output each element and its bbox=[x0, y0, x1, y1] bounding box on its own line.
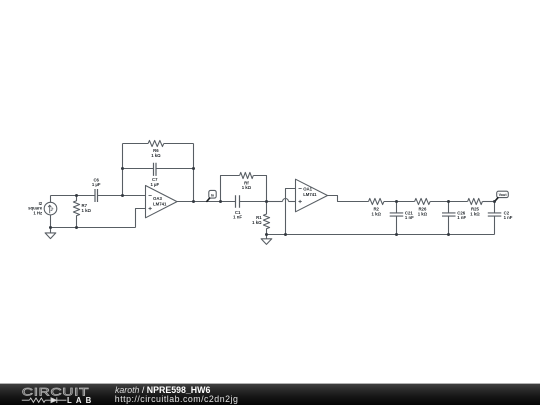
svg-text:LAB: LAB bbox=[67, 396, 95, 405]
ground (R1) bbox=[261, 235, 272, 245]
op-amp OA3 bbox=[146, 186, 178, 218]
wire: R25 to output node bbox=[482, 201, 494, 203]
junction dots bbox=[49, 167, 496, 236]
resistor R26 bbox=[415, 198, 431, 204]
wire: Rf loop right bbox=[253, 176, 266, 202]
svg-text:1 nF: 1 nF bbox=[504, 215, 513, 220]
resistor R1 bbox=[263, 202, 269, 235]
svg-text:1 nF: 1 nF bbox=[405, 215, 414, 220]
svg-text:http://circuitlab.com/c2dn2jg: http://circuitlab.com/c2dn2jg bbox=[115, 394, 239, 404]
svg-text:LM741: LM741 bbox=[153, 201, 167, 206]
wire: feedback left vertical bbox=[122, 144, 124, 196]
svg-text:1 µF: 1 µF bbox=[92, 182, 101, 187]
wire: source bottom stem bbox=[50, 215, 52, 228]
svg-text:1 nF: 1 nF bbox=[233, 215, 242, 220]
wire: R1 node to hop bbox=[267, 201, 283, 203]
wire: R2 to R26 bbox=[384, 201, 415, 203]
svg-text:1 µF: 1 µF bbox=[150, 182, 159, 187]
wire: left ground rail bbox=[51, 227, 136, 229]
wire: Rf loop left bbox=[221, 176, 240, 202]
ground (source) bbox=[45, 228, 56, 239]
wire: C21 stems bbox=[396, 202, 398, 213]
svg-text:1 kΩ: 1 kΩ bbox=[151, 153, 161, 158]
wire: OA3 plus input bend bbox=[136, 209, 146, 228]
resistor R6 bbox=[148, 140, 164, 146]
node In flag bbox=[209, 190, 216, 198]
wire: feedback right vertical bbox=[193, 144, 195, 202]
svg-text:Vout: Vout bbox=[499, 193, 508, 197]
wire: hop to OA1 plus bbox=[289, 201, 296, 203]
capacitor C1 bbox=[236, 195, 240, 207]
svg-text:OA1: OA1 bbox=[303, 187, 312, 192]
wire: R26 to R25 bbox=[430, 201, 468, 203]
node Vout flag bbox=[497, 191, 509, 197]
capacitor C6 bbox=[95, 189, 98, 202]
svg-text:1 nF: 1 nF bbox=[457, 215, 466, 220]
svg-text:1 kΩ: 1 kΩ bbox=[418, 211, 428, 216]
resistor R7 bbox=[73, 196, 79, 228]
svg-text:1 kΩ: 1 kΩ bbox=[470, 211, 480, 216]
capacitor C2 bbox=[488, 213, 502, 216]
wire: right ground rail bbox=[267, 234, 495, 236]
wire: OA1 output step bbox=[328, 196, 369, 202]
wire: source top stem bbox=[50, 196, 52, 203]
wire: R6 top wire bbox=[123, 143, 149, 145]
wire: C26 stems bbox=[448, 202, 450, 213]
svg-text:1 Hz: 1 Hz bbox=[33, 211, 42, 216]
capacitor C21 bbox=[390, 213, 404, 216]
wire: C1 to R1 node bbox=[240, 201, 267, 203]
resistor R25 bbox=[468, 198, 483, 204]
svg-text:1 kΩ: 1 kΩ bbox=[82, 208, 92, 213]
svg-text:OA3: OA3 bbox=[153, 196, 162, 201]
resistor Rf bbox=[240, 172, 254, 178]
svg-text:1 kΩ: 1 kΩ bbox=[252, 220, 262, 225]
svg-text:LM741: LM741 bbox=[303, 192, 317, 197]
wire: top input wire bbox=[51, 195, 96, 197]
wire: C7 wire bbox=[123, 168, 154, 170]
capacitor C7 bbox=[154, 163, 157, 176]
wire: OA3 output to C1 bbox=[177, 201, 236, 203]
svg-text:1 kΩ: 1 kΩ bbox=[371, 211, 381, 216]
wire: C2 stems bbox=[494, 202, 496, 213]
logo wire/resistor/diode bbox=[22, 397, 67, 403]
resistor R2 bbox=[369, 198, 384, 204]
wire: OA1 minus to ground rail bbox=[286, 189, 296, 235]
op-amp OA1 bbox=[296, 179, 328, 212]
current source I2 bbox=[44, 202, 57, 215]
svg-text:1 kΩ: 1 kΩ bbox=[242, 185, 252, 190]
wire: hop over OA1 minus vertical bbox=[283, 199, 289, 202]
capacitor C26 bbox=[442, 213, 456, 216]
